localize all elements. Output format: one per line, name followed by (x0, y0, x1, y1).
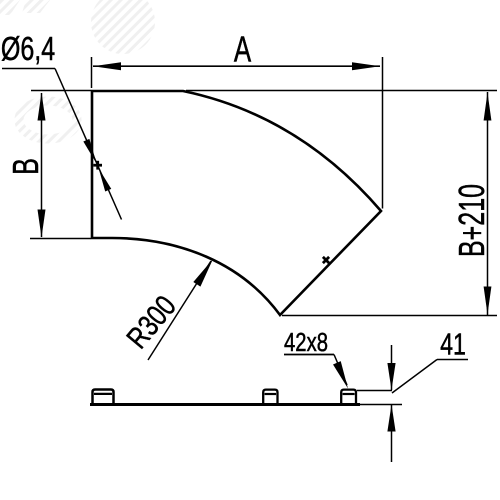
profile bar (90, 403, 360, 406)
dimension A line (93, 65, 380, 67)
42x8 leader arrow (333, 361, 348, 388)
dimension B+210 arrow bottom (484, 287, 492, 315)
42x8 leader line (334, 355, 347, 386)
D6,4 leader arrow (83, 139, 96, 164)
41 dimension line top (391, 345, 393, 390)
clip 2 (263, 390, 277, 403)
clip 3 (341, 390, 356, 403)
42x8 shelf (284, 354, 334, 356)
41 extension bottom (360, 404, 402, 406)
dimension B extension top (31, 90, 91, 92)
41 extension top (357, 390, 392, 392)
svg-text:A: A (234, 29, 251, 69)
dimension B+210 arrow top (484, 93, 492, 121)
R300 leader line (148, 261, 211, 360)
svg-text:42x8: 42x8 (284, 328, 328, 357)
dimension B+210 line (487, 92, 489, 315)
watermark corner stripes (0, 0, 50, 15)
dimension B line (41, 93, 43, 237)
41 shelf (437, 359, 468, 361)
svg-text:B+210: B+210 (451, 184, 492, 257)
D6,4 leader line (55, 69, 122, 220)
41 leader line (392, 360, 437, 394)
dimension B extension bottom (30, 238, 91, 240)
dimension A extension line left (91, 57, 93, 88)
watermark ring left (19, 101, 77, 139)
hole cross left (93, 161, 102, 170)
bottom extension line to B+210 (282, 315, 497, 317)
dimension A extension line right (382, 57, 384, 209)
dimension B arrow bottom (38, 210, 46, 238)
svg-text:41: 41 (440, 326, 466, 361)
D6,4 leader shelf (2, 68, 55, 70)
R300 leader arrow (193, 259, 213, 287)
41 arrow up (387, 405, 395, 432)
41 dimension line bottom (391, 405, 393, 463)
svg-text:Ø6,4: Ø6,4 (1, 31, 55, 68)
dimension B arrow top (38, 93, 46, 121)
watermark circle top-center (91, 0, 155, 54)
dimension A arrow right (352, 62, 380, 70)
svg-text:B: B (6, 158, 47, 175)
dimension A arrow left (93, 62, 121, 70)
second leader arrow (99, 168, 112, 191)
top extension line to B+210 (186, 90, 497, 92)
clip 1 (93, 390, 114, 404)
hole cross right (323, 257, 329, 263)
41 arrow down (387, 363, 395, 390)
bend cover outline (92, 91, 381, 315)
